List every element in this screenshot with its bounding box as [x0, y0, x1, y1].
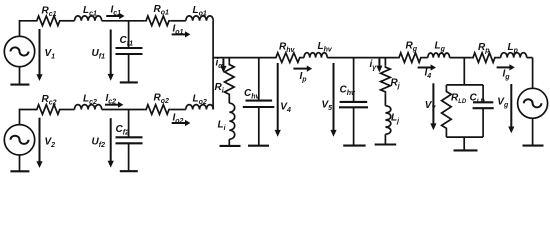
wire	[20, 21, 36, 37]
resistor Rhv	[274, 53, 302, 63]
wire	[497, 57, 501, 59]
label i-alpha	[216, 58, 224, 70]
label I4	[425, 68, 432, 80]
ground	[523, 145, 544, 147]
label Uf1	[92, 48, 106, 60]
wire	[302, 57, 304, 59]
inductor Lhv	[304, 53, 327, 58]
wire rail top	[446, 84, 483, 86]
label Lg	[435, 41, 446, 53]
arrow V5	[330, 63, 336, 137]
label Ic1	[111, 5, 122, 17]
label Rc1	[42, 6, 57, 18]
label V2	[45, 137, 56, 149]
inductor Lo1	[186, 16, 214, 21]
label CLD	[470, 93, 486, 105]
label Ig	[503, 69, 511, 81]
wire	[532, 118, 534, 145]
capacitor Chv second	[339, 58, 368, 146]
current arrow i-gamma	[376, 59, 382, 73]
wire	[171, 20, 186, 22]
arrow V4	[275, 63, 281, 137]
ground	[120, 81, 138, 83]
wire	[463, 137, 465, 150]
resistor Ri	[225, 58, 235, 97]
voltage source V2	[4, 125, 34, 155]
arrow V1	[36, 29, 42, 81]
label V4	[280, 102, 291, 114]
inductor Lc1	[75, 16, 102, 21]
arrow V7	[430, 83, 436, 130]
arrow Uf2	[108, 118, 114, 167]
label Lc1	[83, 5, 97, 17]
wire	[423, 57, 428, 59]
ground	[10, 155, 29, 171]
label Rg	[406, 41, 418, 53]
resistor Rc2	[35, 105, 62, 115]
label Lc2	[83, 94, 97, 106]
wire	[384, 94, 386, 106]
label Cf1	[120, 35, 134, 47]
label Vg	[497, 97, 509, 109]
inductor Li	[229, 103, 234, 139]
ground	[454, 149, 478, 151]
wire	[450, 57, 472, 59]
label Ic2	[106, 93, 117, 105]
label Ip	[300, 71, 308, 83]
wire	[102, 20, 145, 22]
wire	[102, 109, 145, 111]
inductor Lj	[385, 106, 390, 134]
resistor Ro2	[144, 105, 171, 115]
ground	[120, 170, 138, 172]
resistor Ro1	[144, 16, 171, 26]
resistor Rj	[381, 58, 391, 94]
capacitor CLD	[473, 85, 494, 137]
wire	[532, 58, 534, 89]
wire	[228, 97, 230, 104]
ground	[220, 145, 241, 147]
ground	[343, 145, 365, 147]
wire rail bottom	[446, 136, 483, 138]
inductor Lc2	[75, 105, 102, 110]
label Lo2	[193, 94, 207, 106]
inductor Lo2	[186, 105, 214, 110]
current arrow i-alpha	[220, 59, 226, 73]
voltage source V1	[4, 36, 34, 66]
wire	[62, 20, 75, 22]
wire	[62, 109, 75, 111]
wire	[228, 139, 230, 145]
current arrow Io1	[172, 31, 191, 37]
wire	[527, 57, 533, 59]
resistor Rp	[471, 53, 496, 63]
label Ri	[215, 82, 225, 94]
current arrow Ic2	[105, 102, 123, 108]
label Lhv	[318, 41, 333, 53]
inductor Lp	[501, 53, 527, 58]
label Rj	[391, 78, 401, 90]
capacitor Cf1	[116, 21, 143, 82]
arrow Vg	[508, 84, 514, 133]
label V5	[322, 100, 333, 112]
label Cf2	[116, 124, 130, 136]
ground	[248, 145, 269, 147]
voltage source Vg	[518, 88, 548, 118]
wire	[384, 134, 386, 144]
label Io2	[173, 113, 184, 125]
wire	[327, 57, 397, 59]
resistor Rc1	[35, 16, 62, 26]
current arrow Io2	[172, 120, 191, 126]
wire	[171, 109, 186, 111]
label Chv second	[340, 85, 357, 97]
label Rc2	[42, 94, 57, 106]
label Uf2	[92, 137, 106, 149]
label Lp	[508, 42, 519, 54]
label Chv first	[244, 88, 261, 100]
label Rhv	[279, 42, 296, 54]
label i-gamma	[370, 59, 378, 71]
current arrow I4	[418, 64, 436, 70]
label Ro1	[154, 4, 170, 16]
inductor Lg	[428, 53, 450, 58]
arrow Uf1	[108, 30, 114, 81]
label Li	[218, 120, 227, 132]
label Lo1	[193, 5, 207, 17]
current arrow Ic1	[106, 13, 124, 19]
wire bus	[213, 57, 274, 59]
label Ro2	[154, 93, 170, 105]
resistor RLD	[442, 85, 452, 137]
label Rp	[478, 42, 490, 54]
capacitor Chv first	[243, 58, 274, 146]
arrow V2	[36, 118, 42, 168]
label V7	[425, 100, 437, 112]
label Lj	[391, 113, 400, 125]
wire	[20, 110, 36, 125]
wire trunk node	[212, 21, 214, 110]
wire node	[463, 58, 465, 85]
current arrow Ig	[497, 64, 515, 70]
ground	[375, 143, 397, 145]
label RLD	[451, 93, 467, 105]
label Io1	[173, 24, 184, 36]
ground	[10, 67, 29, 85]
label V1	[45, 48, 56, 60]
capacitor Cf2	[116, 110, 143, 171]
resistor Rg	[397, 53, 422, 63]
current arrow Ip	[293, 66, 312, 72]
